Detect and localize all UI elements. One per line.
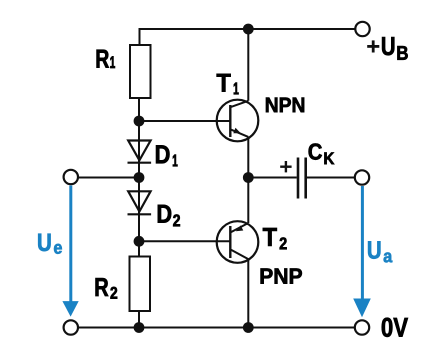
label T1 [217, 74, 231, 92]
label UB [382, 37, 394, 55]
label R1 [97, 50, 109, 68]
arrow Ua [353, 186, 371, 317]
node top junction [243, 24, 254, 35]
terminal +UB [355, 22, 369, 36]
label NPN [266, 98, 304, 112]
wire vertical rail collector T1 [247, 29, 249, 101]
T1 emitter arrow [233, 128, 241, 133]
node input/D1/D2 [134, 172, 145, 183]
label CK [309, 143, 322, 159]
wire input terminal to node [78, 177, 139, 179]
label R2 [96, 278, 109, 296]
wire base T1 [139, 120, 230, 122]
wire bottom rail [78, 327, 355, 329]
wire R2 bottom to rail [138, 311, 140, 328]
wire capacitor left [248, 177, 296, 179]
terminal input [64, 170, 78, 184]
capacitor CK plates [298, 158, 306, 199]
node D2/R2/base T2 [134, 236, 145, 247]
node R1/D1/base T1 [134, 116, 145, 127]
wire capacitor right [307, 177, 355, 179]
terminal bottom right 0V [355, 320, 369, 334]
label +UB plus sign [367, 40, 379, 52]
wire emitter T1 to emitter T2 [247, 137, 249, 223]
terminal bottom left [64, 320, 78, 334]
terminal output [355, 170, 369, 184]
wire top rail [140, 29, 356, 45]
transistor T1 [217, 100, 259, 142]
arrow Ue [62, 186, 78, 317]
label T2 [263, 228, 277, 246]
label Ue [38, 234, 50, 251]
resistor R2 [130, 257, 151, 312]
diode D2 [128, 191, 152, 214]
transistor T2 [217, 221, 259, 263]
node collector T2/rail [243, 322, 254, 333]
label D1 [156, 145, 169, 163]
resistor R1 [130, 45, 151, 98]
wire node to R2 [138, 241, 140, 256]
wire node through D2 [138, 178, 140, 242]
label 0V [382, 318, 408, 337]
wire base T2 [139, 240, 230, 242]
wire collector T2 to bottom rail [247, 259, 249, 327]
label D2 [158, 205, 171, 223]
capacitor plus sign [280, 161, 291, 172]
node R2/rail [134, 322, 145, 333]
T2 emitter arrow [236, 225, 244, 231]
diode D1 [128, 141, 152, 163]
label Ua [368, 241, 380, 258]
node emitter/capacitor [243, 172, 254, 183]
label PNP [261, 268, 302, 283]
wire R1 bottom through D1 [138, 98, 140, 178]
